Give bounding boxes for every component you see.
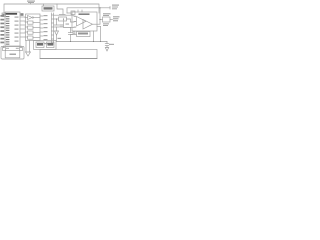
- connector J1 header: [52, 13, 54, 45]
- wire C3 to B3: [71, 34, 77, 36]
- wire U2 right stubs: [40, 16, 43, 36]
- box B2 bottom edge: [40, 58, 97, 60]
- box T1 clock module: [42, 6, 54, 11]
- node VOUT terminal: [109, 7, 111, 10]
- capacitor C2: [54, 19, 59, 31]
- wire common ground run: [56, 35, 58, 42]
- wire C3 into box: [71, 27, 75, 29]
- wire inverting input: [67, 12, 71, 14]
- label 0V node: [58, 38, 62, 39]
- node feedback top: [99, 7, 100, 8]
- wire C3 tap: [64, 19, 71, 28]
- box S2 label: [48, 43, 54, 46]
- label VOUT2: [113, 16, 120, 17]
- IC U1 label: [6, 13, 18, 15]
- label VDD note: [27, 1, 35, 2]
- capacitor C1: [2, 13, 6, 17]
- wire feedback vertical: [99, 8, 101, 24]
- label U3 pin names inside: [74, 15, 77, 18]
- wire B1 stub left: [3, 46, 5, 48]
- node bus at supply: [100, 41, 101, 42]
- label U1 pin names inside left: [6, 16, 10, 45]
- IC U2 latch: [26, 14, 41, 41]
- wire U3 output internal: [93, 23, 101, 25]
- label C4 value: [109, 44, 114, 45]
- box B3 label: [77, 32, 91, 37]
- text annotations as smudges: [0, 1, 119, 56]
- gate U2B: [28, 21, 34, 24]
- label R2 value above: [103, 13, 111, 14]
- wire gate outputs: [33, 18, 40, 38]
- resistor R1: [59, 17, 67, 21]
- ground U2: [26, 52, 31, 56]
- node bus at C3: [70, 41, 71, 42]
- ground C4: [105, 48, 108, 52]
- wire C4 drop: [106, 42, 108, 44]
- ground C2: [55, 31, 59, 35]
- box B1 inner: [5, 51, 20, 58]
- node C2 tap: [56, 18, 57, 19]
- wire U3 pin stub right 2: [97, 26, 101, 28]
- gate U2E: [28, 36, 34, 39]
- wire branch to filter: [57, 4, 63, 14]
- label U1 pin names inside right: [15, 17, 19, 18]
- wire R1 to op-amp: [67, 19, 75, 22]
- wire ground bus: [57, 41, 108, 43]
- capacitor C3: [68, 28, 72, 42]
- wire U3 bottom drop: [93, 31, 95, 42]
- label U1 left pins outside: [0, 15, 4, 17]
- gate U2C: [28, 26, 34, 29]
- gate U2A bubble: [32, 17, 33, 18]
- label B1 pad right: [16, 48, 19, 49]
- wire U3 top pins: [78, 10, 82, 12]
- wire B1 stub right: [20, 46, 22, 48]
- resistor R2: [103, 17, 111, 22]
- label B1 pad left: [6, 48, 9, 49]
- box T1 label: [44, 7, 53, 9]
- wire output row: [100, 19, 103, 21]
- junction dots: [56, 7, 101, 42]
- wire bus U1-U2: [20, 17, 25, 37]
- label R1 value: [59, 14, 66, 15]
- wire feedback rail: [67, 8, 110, 13]
- op-amp U3 box: [72, 12, 97, 31]
- label U1 pin VCC top right: [21, 13, 24, 16]
- box S1 label: [37, 43, 43, 46]
- label VOUT right top: [112, 5, 119, 6]
- label U3 left pins: [66, 24, 70, 25]
- label C3 value: [73, 32, 76, 33]
- node output R2: [99, 19, 100, 20]
- capacitor C4: [105, 44, 109, 48]
- op-amp U3 triangle A: [77, 17, 87, 27]
- box B3 bar: [78, 33, 88, 35]
- wire gate inputs: [25, 18, 28, 38]
- box X latch enclosure: [34, 41, 57, 50]
- node pin box U3: [71, 11, 75, 15]
- box S2 inside X: [47, 42, 55, 48]
- wire U2 ground pin a: [25, 41, 27, 53]
- wire top rail: [4, 4, 99, 13]
- wire supply vertical: [100, 27, 102, 42]
- crystal Y1 pad left: [3, 48, 6, 51]
- node bus at U3 drop: [93, 41, 94, 42]
- wire signal top: [54, 14, 75, 16]
- wire R2 out: [110, 19, 113, 21]
- wire T1 to rail: [43, 4, 45, 6]
- IC U1 microcontroller: [5, 12, 20, 46]
- wire U2 ground pin b: [29, 41, 31, 53]
- gate U2D: [28, 31, 34, 34]
- capacitor C1 mark: [3, 14, 5, 16]
- gate U2A inverter: [28, 16, 33, 20]
- label C2 value: [60, 25, 64, 26]
- label R2 value below: [103, 23, 109, 24]
- label U2 right pin names: [44, 15, 48, 16]
- op-amp U3 triangle B: [83, 20, 93, 30]
- node C3 tap: [63, 18, 64, 19]
- wire 5V label tick: [30, 3, 32, 4]
- crystal Y1 pad right: [20, 48, 23, 51]
- box S1 inside X: [36, 42, 44, 48]
- box B1 crystal enclosure: [1, 47, 24, 60]
- label U3 name: [79, 13, 90, 15]
- box B2 power supply: [40, 49, 97, 58]
- wire to R1: [54, 18, 59, 20]
- label B1 crystal: [10, 54, 17, 56]
